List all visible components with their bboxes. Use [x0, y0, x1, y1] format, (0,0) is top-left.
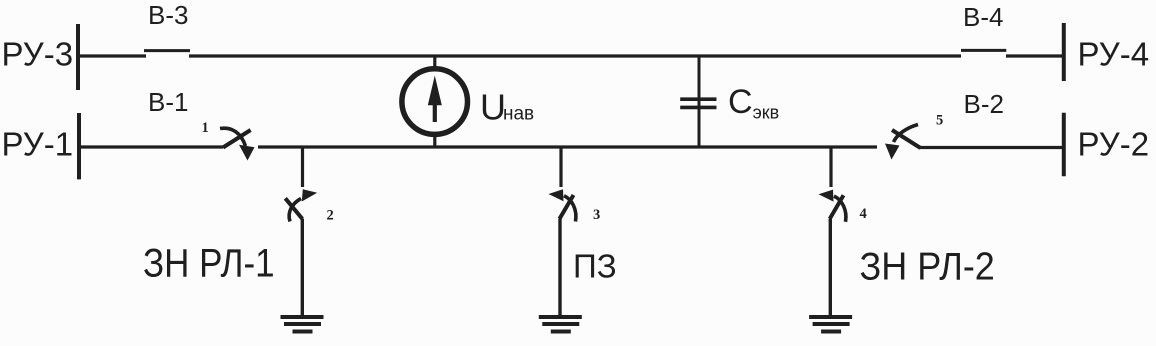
svg-text:5: 5 [936, 112, 943, 128]
svg-text:3: 3 [593, 207, 600, 223]
wire source bottom stub [433, 134, 436, 147]
label РУ-3 [2, 36, 74, 73]
svg-text:В-2: В-2 [964, 89, 1004, 119]
label pin 2 [327, 207, 334, 223]
wire top bus middle segment [189, 54, 961, 57]
svg-text:РУ-3: РУ-3 [2, 36, 74, 73]
switch В-1 arrow [220, 128, 255, 160]
svg-text:В-4: В-4 [963, 2, 1003, 32]
svg-text:4: 4 [860, 206, 867, 222]
svg-text:2: 2 [327, 207, 334, 223]
wire bottom bus middle segment [258, 145, 877, 148]
bus bar РУ-3 [76, 24, 80, 90]
label pin 3 [593, 207, 600, 223]
wire top bus left segment [78, 54, 146, 57]
switch 3 blade [560, 195, 574, 219]
ground ПЗ [539, 317, 582, 332]
wire branch ЗН РЛ-1 lower [301, 219, 304, 318]
bus bar РУ-2 [1062, 113, 1066, 177]
ground ЗН РЛ-2 [809, 317, 852, 332]
label pin 4 [860, 206, 867, 222]
label Uнав [480, 87, 534, 128]
ground ЗН РЛ-1 [281, 317, 324, 332]
label РУ-4 [1078, 36, 1150, 73]
capacitor Сэкв bottom plate [680, 106, 716, 110]
wire capacitor branch [698, 56, 701, 147]
label РУ-2 [1078, 126, 1150, 163]
wire branch ПЗ upper [559, 147, 562, 187]
breaker B-3 closed contact [144, 49, 190, 52]
switch 2 arrow [289, 189, 317, 221]
svg-text:РУ-4: РУ-4 [1078, 36, 1150, 73]
svg-text:ПЗ: ПЗ [573, 247, 617, 284]
bus bar РУ-4 [1062, 23, 1066, 81]
wire branch ПЗ lower [558, 219, 561, 318]
wire branch ЗН РЛ-1 upper [301, 147, 304, 187]
breaker B-4 closed contact [961, 49, 1006, 52]
label РУ-1 [2, 126, 74, 163]
wire bottom bus left segment [79, 145, 223, 148]
label ПЗ [573, 247, 617, 284]
svg-text:1: 1 [202, 120, 209, 136]
label pin 1 [202, 120, 209, 136]
label В-3 [148, 0, 188, 30]
svg-text:В-3: В-3 [148, 0, 188, 30]
svg-text:РУ-1: РУ-1 [2, 126, 74, 163]
wire branch ЗН РЛ-2 upper [829, 147, 832, 187]
label В-1 [148, 87, 188, 117]
current source arrow [428, 76, 442, 123]
wire branch ЗН РЛ-2 lower [829, 219, 832, 318]
capacitor Сэкв top plate [680, 97, 716, 101]
switch 4 blade [830, 195, 844, 219]
wire top bus right segment [1006, 54, 1064, 57]
svg-text:ЗН РЛ-1: ЗН РЛ-1 [143, 241, 275, 285]
switch 3 arrow [549, 189, 576, 221]
label В-4 [963, 2, 1003, 32]
label Сэкв [728, 83, 779, 123]
label В-2 [964, 89, 1004, 119]
svg-text:ЗН РЛ-2: ЗН РЛ-2 [860, 244, 995, 288]
switch В-2 arrow [885, 125, 918, 160]
label ЗН РЛ-2 [860, 244, 995, 288]
svg-text:В-1: В-1 [148, 87, 188, 117]
label pin 5 [936, 112, 943, 128]
switch 4 arrow [819, 190, 846, 222]
wire source top stub [433, 55, 436, 70]
label ЗН РЛ-1 [143, 241, 275, 285]
switch 2 blade [285, 198, 302, 219]
bus bar РУ-1 [77, 113, 81, 179]
switch В-1 blade [223, 130, 251, 148]
current source U circle [402, 69, 468, 135]
svg-text:РУ-2: РУ-2 [1078, 126, 1150, 163]
wire bottom bus right segment [920, 146, 1064, 149]
switch В-2 blade [892, 130, 921, 148]
